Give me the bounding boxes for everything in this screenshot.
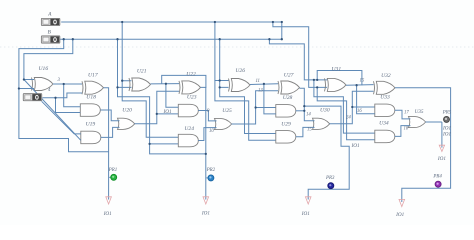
xor U22: [179, 81, 201, 94]
wire U24 lower input stub: [150, 143, 179, 145]
probe PR4: [437, 185, 439, 188]
xor U32: [374, 81, 396, 94]
svg-text:18: 18: [404, 126, 409, 131]
xor U27: [278, 81, 300, 94]
svg-text:U34: U34: [379, 121, 389, 127]
wire B jog to U24 lower input and PR2 branch: [118, 87, 206, 153]
wire B tap jog to U31 upper input: [269, 39, 327, 80]
wire A drop to U21 upper input: [122, 22, 131, 81]
connector arrow IO1 sum2: [203, 197, 209, 204]
connector arrow IO1 carry out: [439, 145, 444, 151]
wire A jog to U29 lower input: [215, 81, 276, 141]
svg-text:PR3: PR3: [325, 176, 335, 181]
wire U32 output down right to probe PR4: [395, 88, 451, 202]
xor U17: [82, 81, 104, 94]
wire U35 output to IO1 arrow: [426, 121, 442, 123]
wire U19 output to U20 lower input: [101, 127, 120, 137]
svg-text:IO1: IO1: [437, 156, 446, 162]
and U33: [375, 104, 395, 117]
and U29: [276, 131, 296, 144]
wire U29 output to U30 lower input: [296, 127, 315, 136]
junction dots A rail: [121, 21, 123, 23]
wire diagonal to U19 lower input: [24, 80, 81, 141]
svg-text:IO1: IO1: [103, 211, 112, 217]
wire left branch to probe PR1 net: [19, 89, 109, 152]
or U30: [313, 118, 330, 129]
svg-text:15: 15: [307, 128, 312, 133]
svg-text:PR1: PR1: [108, 168, 117, 173]
wire A jog to U24 upper input: [122, 81, 178, 138]
wire A drop to U26 upper input: [215, 22, 229, 81]
junction dots stage 1: [18, 87, 20, 89]
wire net3 branch down to U18 upper input: [64, 84, 81, 107]
probe PR1: [109, 176, 111, 178]
svg-text:U32: U32: [381, 73, 391, 79]
svg-text:PR2: PR2: [206, 168, 216, 173]
svg-text:17: 17: [404, 111, 409, 116]
junction dots stage 3: [219, 79, 221, 81]
svg-text:IO1: IO1: [442, 131, 451, 137]
junction dots B rail: [63, 38, 65, 40]
wire B tap to U16 upper input: [24, 39, 73, 79]
wire A tap jog to U31 lower input: [273, 22, 327, 87]
svg-text:13: 13: [258, 89, 263, 94]
connector arrow IO1 sum4: [399, 199, 405, 206]
svg-text:U16: U16: [39, 66, 49, 72]
wire A rail: [61, 21, 282, 23]
wire U17 output down to probe PR1: [104, 88, 109, 200]
wire carry-in to U17 lower input: [42, 93, 82, 98]
wire B drop to U26 lower input: [220, 39, 229, 87]
wire U27 output down to U30 upper input: [300, 88, 315, 121]
wire U33 output to U35 upper input: [395, 110, 411, 119]
wire carry3 branch to U33 upper input: [352, 106, 375, 108]
svg-text:U29: U29: [281, 122, 291, 128]
svg-text:24: 24: [346, 116, 351, 121]
wire jog to U34 upper input: [314, 80, 375, 133]
wire carry-in branch to U18 lower input: [56, 98, 81, 113]
and U18: [80, 104, 100, 117]
svg-text:16: 16: [357, 109, 362, 114]
wire U22 output down to probe PR2: [201, 87, 206, 199]
xor U26: [229, 79, 251, 92]
wire U21 output to U22 upper input: [151, 83, 180, 85]
wire B jog to U34 lower input: [317, 87, 375, 139]
and U24: [178, 134, 198, 147]
svg-text:IO1: IO1: [351, 143, 360, 149]
svg-text:U30: U30: [320, 108, 330, 114]
wire U34 output to U35 lower input: [395, 126, 411, 137]
wire B jog to U29 upper input: [220, 87, 276, 133]
connector arrow IO1 sum3: [305, 197, 311, 204]
wire U23 output to U25 upper input: [198, 111, 216, 121]
wire stub to IO1 arrow carry: [441, 122, 443, 148]
svg-text:U31: U31: [332, 66, 342, 72]
probe PR5: [446, 119, 448, 122]
wire net branch down to U23 upper input: [166, 84, 178, 107]
svg-text:IO1: IO1: [163, 109, 172, 115]
and U23: [178, 104, 198, 117]
wire diagonal to U19 upper input: [42, 101, 81, 134]
wire carry3 U30 output up to U32 lower input: [330, 91, 374, 124]
and U34: [375, 130, 395, 143]
svg-text:U25: U25: [222, 108, 232, 114]
svg-text:U19: U19: [86, 122, 96, 128]
svg-text:U33: U33: [380, 95, 390, 101]
or U25: [215, 118, 232, 129]
xor U21: [129, 78, 151, 91]
svg-text:U22: U22: [186, 72, 196, 78]
probe PR2: [206, 177, 208, 179]
wire U24 output to U25 lower input: [198, 128, 216, 141]
wire U31 output to U32 upper input: [346, 84, 374, 87]
wire arc over U22: [162, 75, 206, 88]
wire U26 output to U27 upper input: [250, 83, 278, 86]
svg-text:15: 15: [360, 79, 365, 84]
svg-text:PR4: PR4: [432, 175, 442, 180]
xor U16: [32, 78, 54, 91]
or U35: [409, 116, 426, 127]
wire branch down to U33 lower input: [357, 85, 375, 114]
or U20: [118, 118, 135, 129]
wire branch to probe PR3: [304, 106, 349, 199]
svg-text:IO1: IO1: [201, 211, 210, 217]
svg-text:U28: U28: [283, 95, 293, 101]
switch B (digital constant 0): [41, 36, 60, 43]
svg-text:U21: U21: [137, 68, 147, 74]
svg-text:14: 14: [306, 112, 311, 117]
svg-text:U27: U27: [284, 73, 294, 79]
svg-text:U35: U35: [415, 109, 424, 115]
wire rail join: [281, 22, 283, 39]
junction dots stage 4: [313, 79, 315, 81]
junction dots stage 2: [121, 80, 123, 82]
wire carry2 U25 output up to U27 lower input: [232, 91, 279, 124]
wire carry1 U20 output up to U22 lower input: [135, 91, 180, 124]
svg-text:10: 10: [209, 129, 214, 134]
wire B drop to U21 lower input: [118, 39, 132, 87]
svg-text:U17: U17: [88, 73, 98, 79]
svg-text:IO1: IO1: [301, 211, 310, 217]
svg-text:11: 11: [256, 79, 260, 84]
svg-text:U20: U20: [122, 108, 132, 114]
svg-text:IO1: IO1: [395, 212, 404, 218]
wire U16 output to U17 upper input: [53, 83, 82, 85]
wire B rail: [60, 38, 282, 40]
connector arrow IO1 sum1: [106, 197, 112, 204]
xor U31: [325, 78, 347, 91]
svg-text:PR5: PR5: [442, 111, 452, 116]
svg-text:U26: U26: [235, 68, 245, 74]
switch A (digital constant 0): [41, 18, 60, 25]
wire carry1 branch to U23 lower input: [157, 113, 179, 115]
and U19: [81, 131, 101, 144]
wire U18 output to U20 upper input: [100, 110, 119, 121]
dashed page margin line: [0, 46, 474, 48]
svg-text:U24: U24: [184, 126, 194, 132]
wire B tap to U16 lower input: [19, 39, 64, 88]
svg-text:U18: U18: [86, 95, 96, 101]
switch carry-in (digital constant 0): [23, 94, 42, 101]
and U28: [276, 105, 296, 118]
wire arc over U31: [317, 71, 362, 86]
wire net branch down to U28 lower input: [264, 84, 276, 114]
wire U28 output join: [296, 110, 305, 112]
wire carry2 branch to U28 upper input: [256, 107, 276, 109]
probe PR3: [330, 186, 332, 189]
svg-text:U23: U23: [187, 95, 197, 101]
